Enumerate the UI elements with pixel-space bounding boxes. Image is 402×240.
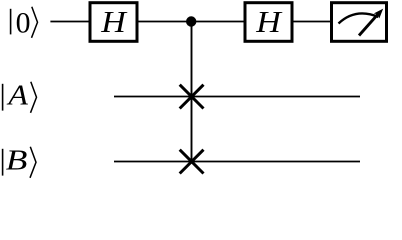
wire qA: [114, 96, 360, 98]
H gate U2: [245, 3, 292, 42]
control dot: [186, 16, 196, 26]
svg-text:A: A: [6, 79, 28, 111]
vertical control wire: [191, 22, 193, 162]
svg-text:H: H: [100, 5, 127, 39]
swap cross on A: [180, 85, 204, 109]
measurement meter M: [332, 3, 387, 42]
svg-text:H: H: [255, 5, 282, 39]
wire q0 segment 3: [293, 21, 331, 23]
wire q0 segment 2: [139, 21, 244, 23]
qubit label |B>: [3, 143, 36, 177]
swap cross on B: [180, 150, 204, 174]
H gate U1: [90, 3, 137, 42]
svg-text:0: 0: [16, 7, 31, 40]
qubit label |0>: [11, 7, 38, 40]
wire qB: [114, 161, 360, 163]
qubit label |A>: [3, 79, 37, 113]
svg-text:B: B: [6, 143, 28, 175]
wire q0 segment 1: [50, 21, 90, 23]
